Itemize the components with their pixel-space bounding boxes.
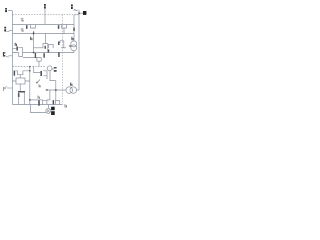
label near Q4 bbox=[15, 43, 16, 46]
current source CS2 circles bbox=[71, 41, 77, 47]
line y47.8 right bbox=[61, 47, 66, 49]
pin label a bbox=[4, 27, 6, 29]
resistor R1 stubs bbox=[13, 80, 30, 82]
Q6 base tick bbox=[58, 42, 60, 46]
wire into resistor bbox=[19, 75, 21, 92]
Q10 arrow head bbox=[36, 81, 38, 83]
wire from CS1 lead down to Q11 bbox=[47, 90, 50, 100]
lamp stub from rail bbox=[47, 105, 49, 109]
supply link y14.8 bbox=[74, 14, 79, 16]
current source CS2 top lead bbox=[73, 15, 75, 41]
bus line y33 bbox=[13, 33, 75, 35]
junction dot x33/y33 bbox=[33, 33, 35, 35]
Q12 base tick bbox=[53, 100, 55, 104]
terminal stub top right bbox=[79, 12, 83, 14]
label bottom right bbox=[65, 104, 66, 107]
current arrow top1 bbox=[21, 20, 24, 22]
pin stub input (left, y55.8) bbox=[9, 55, 13, 57]
dashed box right edge bbox=[62, 15, 64, 105]
transistor Q8 notch bbox=[18, 71, 23, 75]
junction dot x29.8/y99.9 bbox=[29, 99, 31, 101]
junction dot x55.8/y90 bbox=[55, 89, 57, 91]
junction dot x29.8/y66.5 bbox=[29, 66, 30, 67]
Q2 base tick bbox=[58, 25, 60, 29]
pin label top middle bbox=[44, 4, 46, 6]
label near CS1 bbox=[70, 83, 71, 86]
transistor Q10 leads bbox=[43, 71, 47, 76]
CS1 arrow left end bbox=[45, 89, 47, 91]
transistor Q1 notch on top rail bbox=[31, 25, 36, 29]
QD1 tail wire bbox=[38, 61, 40, 66]
Q5 base tick bbox=[45, 46, 46, 49]
junction dot x29.8/y70.8 bbox=[29, 70, 30, 71]
junction dot x79/y13.2 bbox=[78, 13, 80, 15]
junction dot x33/y52 bbox=[33, 52, 35, 54]
cap stub bbox=[52, 68, 54, 70]
transistor Q11 notch on rail bbox=[43, 100, 47, 104]
wire x33.7 to Q10 base bbox=[34, 67, 41, 73]
Q10 emitter arrow line bbox=[37, 80, 40, 83]
pin1 hook top left bbox=[8, 10, 13, 12]
current source CS1 circles bbox=[66, 87, 73, 94]
resistor R1 box bbox=[16, 78, 25, 84]
transistor Q4 collector lead bbox=[18, 47, 22, 52]
external wire x79 bbox=[78, 10, 80, 90]
Q11 base tick bbox=[38, 100, 40, 106]
Q10 base tick bbox=[40, 71, 42, 76]
transistor Q3 notch below y52.5 bbox=[19, 53, 23, 57]
CS2 arrow bbox=[69, 45, 71, 47]
pin label top right bbox=[71, 4, 73, 6]
line y52.5 bbox=[13, 52, 75, 54]
tick on line52 left bbox=[48, 49, 49, 52]
wire x55.8 down to Q12 bbox=[55, 81, 57, 101]
Q1 base tick bbox=[26, 25, 28, 29]
junction tick above bus y33 bbox=[33, 31, 34, 33]
current source CS2 bottom lead + corner bbox=[73, 51, 75, 53]
Q8 base tick bbox=[14, 71, 16, 76]
label below Q10 arrow bbox=[38, 85, 41, 88]
pin label input bbox=[3, 52, 4, 57]
tick on wire x74 bbox=[73, 28, 75, 31]
Q8 row line y70.8 bbox=[15, 70, 29, 72]
current label dash top1 bbox=[21, 18, 24, 21]
line y66.5 (dashed) bbox=[13, 66, 47, 68]
wire node x33 down from bus bbox=[33, 34, 35, 53]
tilde of input label bbox=[6, 55, 9, 58]
terminal square top right bbox=[83, 11, 86, 15]
wire x29.8 down bbox=[29, 67, 31, 105]
lamp X bbox=[47, 110, 50, 113]
top rail bbox=[13, 24, 75, 26]
transistor Q7 bracket bbox=[49, 44, 54, 48]
pin label top left bbox=[5, 8, 7, 10]
Q4 base stub bbox=[13, 48, 17, 50]
dashed box top edge bbox=[13, 14, 80, 16]
pin stub bottom left y88 bbox=[7, 87, 13, 89]
line y47.8 left bbox=[34, 47, 44, 49]
Q10 stub down bbox=[46, 76, 48, 79]
transistor Q5 bracket bbox=[43, 44, 48, 53]
line y57.5 bbox=[23, 57, 41, 59]
Q2 collector stub to bus bbox=[63, 28, 65, 34]
terminal squares bottom bbox=[51, 107, 55, 111]
Q9 base bar bbox=[18, 91, 25, 93]
transistor Q6 bracket bbox=[60, 41, 64, 48]
diff transistor QD1 notch below y57.5 bbox=[37, 58, 41, 62]
transistor Q12 notch on rail bbox=[55, 100, 59, 104]
transistor Q2 notch on top rail bbox=[62, 25, 67, 29]
wire x50 from cap circle bbox=[50, 71, 56, 81]
tick on line52 right bbox=[58, 52, 60, 57]
QD2 base tick bbox=[43, 53, 45, 57]
V- drop wire to bottom bbox=[31, 105, 46, 113]
Q4 base tick bbox=[16, 46, 18, 50]
pin label bottom left bbox=[2, 87, 5, 91]
transistor Q9 legs bbox=[19, 93, 25, 105]
QD1 base tick bbox=[35, 53, 36, 58]
label above Q11 bbox=[37, 96, 40, 99]
Q9 arrow blob bbox=[18, 93, 20, 97]
top middle supply wire x45 bbox=[44, 9, 46, 25]
capacitor plates bbox=[54, 67, 57, 69]
current source CS1 lead left bbox=[47, 89, 66, 91]
QD2 collector lead bbox=[43, 52, 45, 55]
line y99.9 bbox=[30, 99, 43, 101]
box left edge wire bbox=[12, 11, 14, 105]
label on wire x33 bbox=[30, 37, 31, 40]
pin stub a (left, y30.3) bbox=[9, 29, 13, 31]
current arrow top2 bbox=[21, 28, 24, 31]
label near CS2 bbox=[71, 37, 72, 40]
lamp circle bbox=[46, 108, 51, 113]
current source CS1 lead right bbox=[77, 89, 80, 91]
bottom rail bbox=[13, 104, 63, 106]
cap pin circle bbox=[47, 66, 52, 71]
squiggle top right bbox=[74, 9, 78, 12]
transistor Q5 wire from bus bbox=[45, 34, 47, 44]
